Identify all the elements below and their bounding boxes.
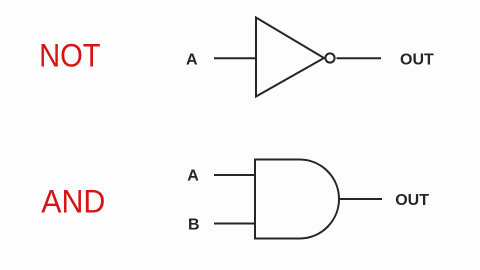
AND gate U2 body (255, 160, 339, 239)
inverter U1 triangle (256, 18, 324, 97)
wire A to inverter (214, 57, 256, 59)
svg-text:B: B (188, 217, 200, 234)
svg-text:A: A (187, 168, 199, 185)
svg-text:NOT: NOT (39, 38, 101, 74)
svg-text:AND: AND (41, 184, 105, 220)
wire AND output (339, 198, 382, 200)
svg-text:OUT: OUT (400, 52, 434, 69)
svg-text:A: A (186, 52, 198, 69)
wire B to AND gate (214, 223, 256, 225)
inversion bubble (325, 53, 334, 62)
svg-text:OUT: OUT (395, 192, 429, 209)
wire inverter output (337, 57, 382, 59)
wire A to AND gate (214, 174, 256, 176)
